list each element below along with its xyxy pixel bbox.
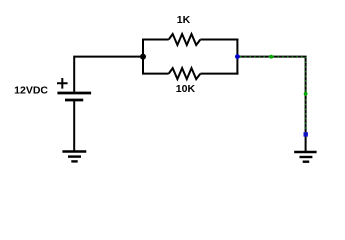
node A left junction vertical	[142, 40, 144, 74]
ground left	[62, 152, 86, 162]
waypoint dot green on horizontal wire	[269, 55, 273, 59]
pin dot blue above right ground	[304, 132, 308, 136]
wire top rail right	[200, 39, 238, 41]
node B right junction vertical	[236, 39, 238, 75]
waypoint dot green on vertical wire	[304, 92, 308, 96]
wire bottom rail left	[142, 73, 169, 75]
svg-text:10K: 10K	[176, 83, 196, 95]
wire battery negative to left ground	[73, 101, 75, 152]
wire node B to right ground (black base)	[237, 57, 305, 152]
battery V1 negative plate	[65, 99, 83, 102]
node B junction dot (blue)	[235, 54, 240, 59]
ground right	[294, 152, 316, 162]
battery V1 plus sign	[57, 78, 68, 89]
svg-text:1K: 1K	[177, 14, 191, 26]
battery V1 positive plate	[57, 92, 91, 95]
node A junction dot	[140, 54, 146, 60]
wire bottom rail right	[200, 73, 238, 75]
wire top rail left	[142, 39, 169, 41]
resistor R2 10K zigzag	[169, 68, 201, 79]
wire battery positive to node A	[74, 57, 143, 92]
resistor R1 1K zigzag	[169, 34, 201, 45]
svg-text:12VDC: 12VDC	[14, 85, 48, 97]
wire node B to right ground (green speckle overlay)	[240, 57, 306, 134]
